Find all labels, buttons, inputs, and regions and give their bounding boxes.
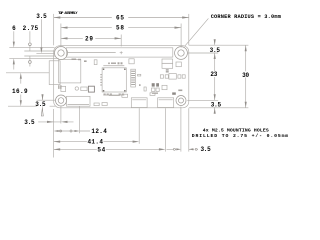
misc small components: [162, 59, 173, 68]
tiny silkscreen specks: [58, 59, 182, 96]
board outline: [54, 46, 189, 108]
USB connector 1: [131, 98, 147, 108]
svg-text:29: 29: [85, 35, 93, 42]
svg-text:54: 54: [97, 147, 105, 154]
svg-text:3.5: 3.5: [24, 119, 35, 126]
svg-text:3.5: 3.5: [201, 146, 212, 153]
svg-text:DRILLED TO 2.75 +/- 0.05mm: DRILLED TO 2.75 +/- 0.05mm: [192, 133, 289, 139]
SoC: [102, 68, 126, 92]
pin strip right of SoC: [131, 69, 136, 87]
USB connector 2: [158, 98, 174, 108]
svg-text:58: 58: [116, 25, 124, 32]
ext verticals below board: [54, 107, 189, 158]
54 row: [54, 148, 161, 150]
mini HDMI connector: [67, 96, 91, 106]
svg-text:65: 65: [116, 15, 124, 22]
58 dim line: [61, 27, 181, 29]
corner radius leader: [185, 18, 209, 46]
left ext horizontals: [6, 48, 59, 107]
ext verticals: [54, 14, 189, 48]
svg-text:41.4: 41.4: [87, 139, 103, 146]
svg-text:TOP ASSEMBLY: TOP ASSEMBLY: [58, 12, 78, 16]
svg-text:CORNER RADIUS = 3.0mm: CORNER RADIUS = 3.0mm: [211, 14, 281, 20]
svg-text:3.5: 3.5: [35, 101, 46, 108]
svg-text:16.9: 16.9: [12, 88, 28, 95]
svg-text:3.5: 3.5: [36, 13, 47, 20]
svg-text:12.4: 12.4: [91, 128, 107, 135]
svg-text:23: 23: [210, 71, 217, 78]
12.4 row: [59, 130, 90, 132]
svg-text:2.75: 2.75: [23, 25, 39, 32]
mounting hole pads: [55, 47, 188, 107]
29 dim line: [61, 37, 121, 39]
3.5 far-right row (hole to right edge): [167, 148, 199, 150]
65 dim line: [54, 17, 189, 19]
svg-text:4x M2.5 MOUNTING HOLES: 4x M2.5 MOUNTING HOLES: [203, 128, 269, 134]
GPIO header band: [66, 48, 173, 57]
41.4 row: [54, 141, 134, 143]
SD slot body + card: [59, 60, 81, 83]
svg-text:6: 6: [12, 25, 16, 32]
svg-text:3.5: 3.5: [211, 102, 222, 109]
